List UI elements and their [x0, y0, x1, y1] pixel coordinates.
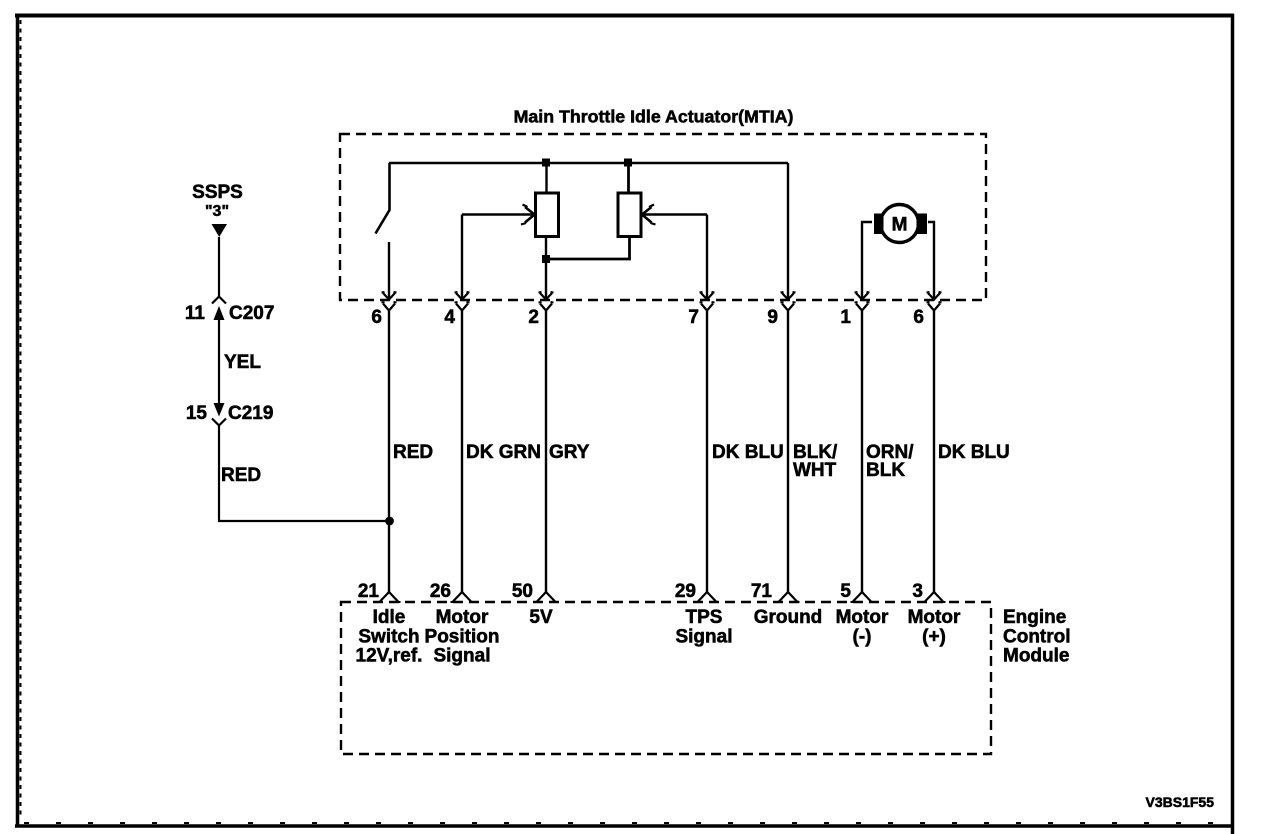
svg-text:21: 21 [358, 581, 380, 602]
svg-text:BLK: BLK [866, 460, 905, 481]
svg-text:RED: RED [393, 442, 433, 463]
svg-text:C219: C219 [228, 403, 273, 424]
svg-text:Position: Position [425, 627, 500, 648]
svg-text:50: 50 [512, 581, 533, 602]
svg-text:Module: Module [1003, 646, 1070, 667]
svg-text:SSPS: SSPS [192, 182, 243, 203]
svg-text:5V: 5V [529, 607, 553, 628]
svg-text:6: 6 [371, 307, 382, 328]
svg-text:(-): (-) [853, 627, 872, 648]
svg-text:Engine: Engine [1003, 607, 1066, 628]
svg-text:9: 9 [767, 307, 778, 328]
svg-text:12V,ref.: 12V,ref. [356, 646, 423, 667]
svg-text:(+): (+) [922, 627, 946, 648]
svg-text:2: 2 [528, 307, 539, 328]
svg-text:6: 6 [913, 307, 924, 328]
svg-text:Ground: Ground [754, 607, 823, 628]
svg-text:YEL: YEL [224, 352, 261, 373]
svg-text:1: 1 [840, 307, 851, 328]
svg-text:5: 5 [840, 581, 851, 602]
svg-text:"3": "3" [205, 203, 229, 220]
svg-text:WHT: WHT [793, 460, 837, 481]
svg-text:DK GRN: DK GRN [466, 442, 541, 463]
svg-text:GRY: GRY [549, 442, 590, 463]
svg-text:15: 15 [186, 403, 208, 424]
svg-text:11: 11 [185, 303, 206, 324]
svg-text:M: M [892, 215, 908, 236]
svg-text:TPS: TPS [686, 607, 723, 628]
svg-text:Idle: Idle [373, 607, 406, 628]
svg-text:Motor: Motor [836, 607, 889, 628]
svg-text:7: 7 [688, 307, 699, 328]
svg-text:RED: RED [221, 465, 261, 486]
svg-text:Switch: Switch [358, 627, 419, 648]
svg-text:29: 29 [675, 581, 696, 602]
svg-text:Signal: Signal [675, 627, 732, 648]
svg-text:C207: C207 [229, 303, 274, 324]
svg-text:Motor: Motor [908, 607, 961, 628]
svg-text:Control: Control [1003, 627, 1071, 648]
svg-text:DK BLU: DK BLU [712, 442, 784, 463]
svg-text:V3BS1F55: V3BS1F55 [1146, 794, 1215, 810]
svg-text:Motor: Motor [436, 607, 489, 628]
svg-text:4: 4 [444, 307, 455, 328]
svg-text:DK BLU: DK BLU [938, 442, 1010, 463]
svg-text:26: 26 [430, 581, 451, 602]
svg-text:Signal: Signal [433, 646, 490, 667]
svg-text:Main Throttle Idle Actuator(MT: Main Throttle Idle Actuator(MTIA) [514, 107, 794, 127]
svg-text:71: 71 [751, 581, 773, 602]
svg-text:3: 3 [912, 581, 923, 602]
